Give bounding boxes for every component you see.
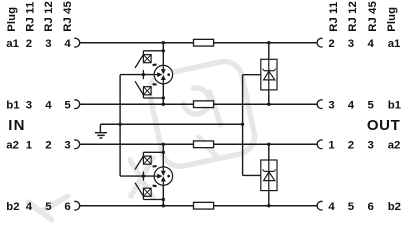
svg-text:1: 1 <box>26 140 33 152</box>
svg-text:5: 5 <box>64 100 71 112</box>
svg-text:b1: b1 <box>6 100 20 112</box>
svg-text:2: 2 <box>26 38 32 50</box>
svg-text:4: 4 <box>348 100 355 112</box>
svg-text:5: 5 <box>45 201 52 213</box>
svg-text:2: 2 <box>328 38 334 50</box>
svg-text:3: 3 <box>348 38 354 50</box>
svg-text:a1: a1 <box>388 38 401 50</box>
svg-text:RJ 12: RJ 12 <box>347 1 359 32</box>
svg-text:a1: a1 <box>6 38 19 50</box>
svg-text:3: 3 <box>368 140 374 152</box>
svg-text:a2: a2 <box>6 140 19 152</box>
svg-text:b2: b2 <box>388 201 401 213</box>
svg-text:IN: IN <box>8 117 25 134</box>
svg-text:5: 5 <box>348 201 355 213</box>
svg-text:a2: a2 <box>388 140 401 152</box>
svg-text:RJ 11: RJ 11 <box>328 2 340 32</box>
svg-text:4: 4 <box>328 201 335 213</box>
svg-text:4: 4 <box>26 201 33 213</box>
svg-text:1: 1 <box>328 140 335 152</box>
svg-text:RJ 12: RJ 12 <box>43 1 55 32</box>
svg-text:3: 3 <box>26 100 32 112</box>
svg-text:b1: b1 <box>388 100 402 112</box>
svg-text:OUT: OUT <box>367 117 400 134</box>
svg-text:b2: b2 <box>6 201 19 213</box>
svg-text:RJ 45: RJ 45 <box>367 1 379 32</box>
svg-text:RJ 45: RJ 45 <box>62 1 74 32</box>
svg-text:RJ 11: RJ 11 <box>24 2 36 32</box>
svg-text:Plug: Plug <box>6 7 18 32</box>
svg-text:4: 4 <box>45 100 52 112</box>
svg-text:4: 4 <box>368 38 375 50</box>
svg-text:4: 4 <box>64 38 71 50</box>
svg-text:2: 2 <box>45 140 51 152</box>
svg-text:2: 2 <box>348 140 354 152</box>
svg-text:6: 6 <box>368 201 374 213</box>
svg-text:5: 5 <box>368 100 375 112</box>
svg-text:6: 6 <box>64 201 70 213</box>
svg-text:3: 3 <box>328 100 334 112</box>
svg-text:3: 3 <box>45 38 51 50</box>
svg-text:3: 3 <box>64 140 70 152</box>
svg-text:Plug: Plug <box>386 7 398 32</box>
